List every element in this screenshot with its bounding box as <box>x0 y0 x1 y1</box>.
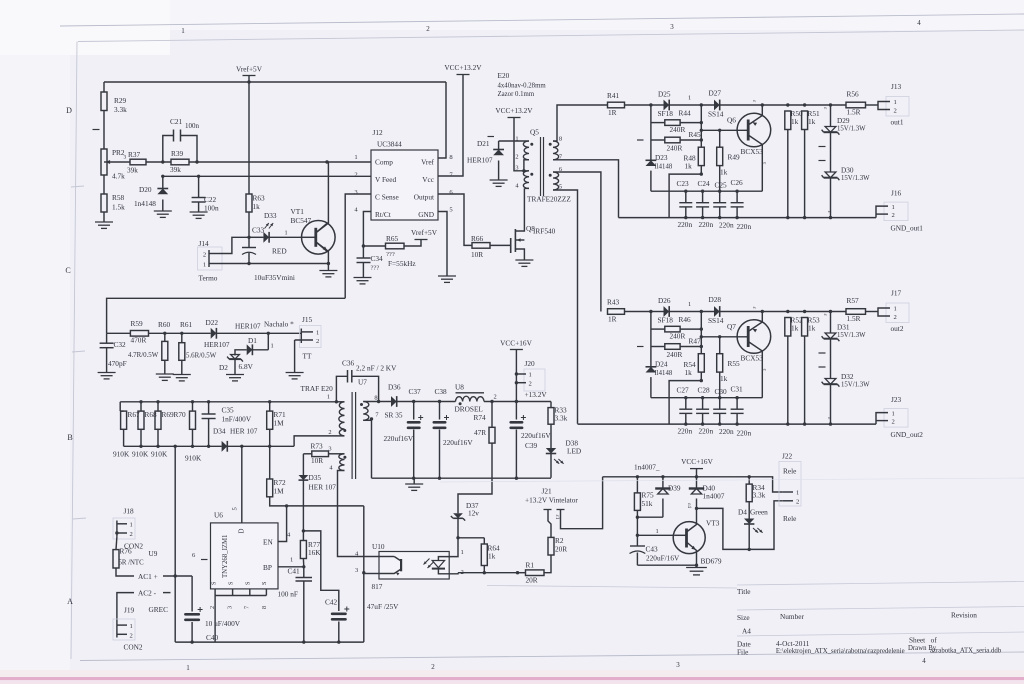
wire +13.2V to R33 <box>516 401 551 403</box>
svg-text:1k: 1k <box>791 324 799 333</box>
capacitor C31 220n <box>731 398 744 424</box>
junction snub left <box>700 310 703 313</box>
svg-text:220n: 220n <box>719 427 734 436</box>
svg-text:12v: 12v <box>468 509 479 518</box>
svg-text:4-Oct-2011: 4-Oct-2011 <box>776 639 810 648</box>
svg-text:R69: R69 <box>162 410 175 419</box>
svg-text:Sheet of: Sheet of <box>909 636 937 645</box>
wire caps top <box>651 397 762 399</box>
resistor R77 16K <box>300 531 321 567</box>
junction cap top node <box>684 190 687 193</box>
junction C37 top <box>412 400 415 403</box>
svg-text:C37: C37 <box>409 387 422 396</box>
wire R77 top to C42 <box>303 531 338 611</box>
resistor R76 NTC <box>113 537 158 576</box>
svg-text:VCC+16V: VCC+16V <box>681 457 713 466</box>
svg-text:1: 1 <box>130 522 133 529</box>
svg-text:A4: A4 <box>742 627 751 636</box>
connector J20 <box>516 359 547 399</box>
svg-text:1R: 1R <box>608 108 617 117</box>
svg-text:GND: GND <box>418 210 434 219</box>
junction R64 bottom <box>483 571 486 574</box>
svg-text:C42: C42 <box>325 598 338 607</box>
svg-text:1M: 1M <box>274 419 285 428</box>
resistor R1 20R <box>518 555 552 585</box>
junction cap top node <box>735 190 738 193</box>
resistor R59 470R <box>107 319 211 345</box>
capacitor C43 220uF/16V <box>630 545 680 566</box>
junction snub b1 <box>700 121 703 124</box>
junction C42 bottom <box>337 640 340 643</box>
junction cap bottom node <box>684 216 687 219</box>
connector J14 <box>198 239 295 283</box>
svg-text:E20: E20 <box>498 71 510 80</box>
transistor Q7 <box>727 312 771 398</box>
node VCC+13.2V at transformer <box>495 106 533 171</box>
connector J19 <box>113 606 143 652</box>
wire sense vertical <box>700 312 702 354</box>
title block lines <box>487 582 1024 637</box>
capacitor C28 220n <box>696 398 709 424</box>
polarity dash near R29 <box>93 129 100 131</box>
junction cap bottom node <box>684 422 687 425</box>
svg-text:2: 2 <box>892 212 895 219</box>
svg-text:5R /NTC: 5R /NTC <box>119 560 145 567</box>
svg-text:out1: out1 <box>891 118 904 127</box>
connector J16 <box>876 189 923 233</box>
junction bank b3 <box>191 445 194 448</box>
svg-text:1n4148: 1n4148 <box>134 199 156 208</box>
svg-text:R61: R61 <box>180 320 193 329</box>
svg-text:J15: J15 <box>302 315 312 324</box>
svg-text:2: 2 <box>209 606 216 609</box>
junction R48 bottom node <box>700 379 703 382</box>
capacitor C42 47uF <box>325 598 399 643</box>
resistor R71 1M <box>267 402 286 447</box>
svg-text:Q6: Q6 <box>727 116 736 125</box>
svg-text:R39: R39 <box>171 149 184 158</box>
junction snub b3 <box>700 138 703 141</box>
svg-text:Size: Size <box>737 613 750 622</box>
svg-text:1: 1 <box>688 301 691 308</box>
resistor R63 <box>246 194 265 238</box>
junction D41 bottom node <box>748 548 751 551</box>
capacitor C24 220n <box>696 191 709 217</box>
svg-text:4x40nav-0.28mm: 4x40nav-0.28mm <box>498 83 547 90</box>
resistor R70 910K <box>174 402 202 463</box>
frame column number 3 bottom <box>676 661 680 669</box>
transformer T2 TRAF E20 U7 <box>301 378 392 480</box>
svg-text:3: 3 <box>227 606 234 609</box>
svg-text:HER107: HER107 <box>235 322 261 331</box>
resistor R43 <box>607 298 651 324</box>
svg-text:1.5R: 1.5R <box>847 314 861 323</box>
resistor R66 <box>471 234 511 259</box>
svg-text:Revision: Revision <box>951 611 977 620</box>
junction C33 bottom node <box>247 262 250 265</box>
capacitor C27 220n <box>679 398 692 424</box>
wire Vref pin8 <box>438 82 446 158</box>
svg-text:C24: C24 <box>698 179 711 188</box>
svg-text:1: 1 <box>529 372 532 379</box>
ground at UC3844 GND <box>438 276 456 282</box>
wire D37 to U10 pin1 <box>457 538 459 553</box>
svg-text:1k: 1k <box>685 162 693 171</box>
svg-text:ε4: ε4 <box>686 503 692 508</box>
svg-text:R1: R1 <box>526 561 535 570</box>
junction cap bottom node <box>701 422 704 425</box>
svg-text:1: 1 <box>327 394 330 401</box>
wire Vref vertical rail <box>248 82 250 194</box>
diode D21 HER107 <box>467 137 508 187</box>
svg-text:5.6R/0.5W: 5.6R/0.5W <box>186 353 217 360</box>
frame column number 2 bottom <box>431 663 435 671</box>
frame row letter C <box>65 266 70 275</box>
svg-text:C: C <box>65 266 70 275</box>
title block text <box>737 587 1002 657</box>
wire bank down to AC1 <box>174 446 176 576</box>
wire U10 pin3 stub2 <box>364 573 379 575</box>
ground under VT1 <box>319 264 337 277</box>
resistor R58 <box>95 175 125 228</box>
wire U10 pin2 stub <box>449 573 458 574</box>
wire U6 D pin <box>241 446 243 523</box>
wire AC2 <box>117 589 171 621</box>
svg-text:C34: C34 <box>371 254 384 263</box>
svg-text:R37: R37 <box>128 150 141 159</box>
svg-text:Vref+5V: Vref+5V <box>411 228 438 237</box>
junction R51 bottom <box>803 422 806 425</box>
junction pin3 node <box>522 169 525 172</box>
wire bank bottom rail <box>124 445 222 447</box>
resistor R54 <box>669 354 704 424</box>
svg-text:220n: 220n <box>737 222 752 231</box>
svg-text:J21: J21 <box>542 487 552 496</box>
svg-text:D30: D30 <box>841 166 854 175</box>
svg-text:16K: 16K <box>308 548 321 557</box>
svg-text:3.3k: 3.3k <box>114 105 127 114</box>
junction R48 bottom node <box>700 172 703 175</box>
faint scan streak <box>440 478 1024 482</box>
svg-text:Q5: Q5 <box>530 128 539 137</box>
svg-text:D33: D33 <box>264 211 277 220</box>
svg-text:HER 107: HER 107 <box>309 483 337 492</box>
svg-text:+13.2V Vintelator: +13.2V Vintelator <box>525 496 578 505</box>
junction base tap <box>636 534 639 537</box>
junction pin3 node <box>362 571 365 574</box>
resistor R56 <box>846 90 878 117</box>
svg-text:TRAFE20ZZZ: TRAFE20ZZZ <box>527 195 571 204</box>
svg-text:F=55kHz: F=55kHz <box>388 259 416 268</box>
junction EN node <box>285 504 288 507</box>
zener D31 <box>822 312 866 342</box>
connector J13 <box>878 82 909 127</box>
resistor R34 3.3k <box>746 477 765 519</box>
svg-text:Green: Green <box>750 508 768 517</box>
svg-text:1: 1 <box>688 95 691 102</box>
mark e4 <box>826 211 832 214</box>
svg-text:C Sense: C Sense <box>375 193 399 202</box>
svg-text:Rele: Rele <box>783 467 796 476</box>
resistor R61 5.6R <box>173 320 217 381</box>
svg-text:C27: C27 <box>677 386 690 395</box>
svg-text:A: A <box>67 597 73 606</box>
svg-text:220n: 220n <box>719 221 734 230</box>
transformer T1 TRAFE20ZZZ <box>515 128 571 204</box>
junction bank b4 <box>207 445 210 448</box>
transistor VT3 BD679 <box>673 508 722 565</box>
junction C38 top <box>438 400 441 403</box>
junction Q emitter node <box>761 310 764 313</box>
svg-text:100 nF: 100 nF <box>278 590 298 599</box>
ground secondary <box>405 478 423 490</box>
svg-text:J12: J12 <box>373 128 383 137</box>
zener D2 6.8V <box>219 355 254 381</box>
resistor R57 <box>846 296 878 323</box>
junction comp collector node <box>325 160 328 163</box>
svg-text:R57: R57 <box>847 296 860 305</box>
wire Vref rail <box>104 81 446 83</box>
svg-text:1k: 1k <box>720 168 728 177</box>
capacitor C37 220uf16V <box>384 387 424 478</box>
label E20 core data <box>498 71 547 98</box>
junction R75 top <box>636 475 639 478</box>
svg-text:D24: D24 <box>655 360 668 369</box>
svg-text:C23: C23 <box>677 179 690 188</box>
svg-text:S: S <box>245 581 252 585</box>
resistor R53 <box>802 316 820 425</box>
junction R51 top <box>803 103 806 106</box>
svg-text:RED: RED <box>272 247 287 256</box>
svg-text:BCX53: BCX53 <box>741 354 764 363</box>
svg-text:J18: J18 <box>124 507 134 516</box>
resistor R2 20R <box>548 530 567 555</box>
svg-text:R59: R59 <box>131 319 144 328</box>
svg-text:D: D <box>66 106 72 115</box>
svg-text:R76: R76 <box>120 547 133 556</box>
svg-text:BP: BP <box>263 563 272 572</box>
zener D37 12v <box>451 501 479 538</box>
junction R49 top node <box>718 129 721 132</box>
junction R50 bottom <box>786 216 789 219</box>
junction bank down node <box>174 445 177 448</box>
dashes between zeners <box>819 147 826 161</box>
svg-text:10 uF/400V: 10 uF/400V <box>205 619 241 628</box>
junction R77 top node <box>302 529 305 532</box>
resistor R49 <box>717 130 740 191</box>
svg-text:R73: R73 <box>311 442 324 451</box>
wire HV rail <box>120 401 336 403</box>
svg-text:2: 2 <box>892 419 895 426</box>
wire transformer pin1 <box>499 140 529 142</box>
svg-text:HER 107: HER 107 <box>230 427 258 436</box>
wire V Feed <box>163 175 371 177</box>
svg-text:R58: R58 <box>112 193 125 202</box>
svg-text:D29: D29 <box>837 116 850 125</box>
svg-text:D35: D35 <box>309 473 322 482</box>
svg-text:1: 1 <box>892 411 895 418</box>
svg-text:???: ??? <box>371 265 380 272</box>
junction D1 tap <box>267 332 270 335</box>
wire pin5 to gnd rail2 <box>553 190 578 424</box>
svg-text:+13.2V: +13.2V <box>525 390 548 399</box>
svg-text:TNY268_IZM1: TNY268_IZM1 <box>222 535 229 578</box>
wire R75 D39 join <box>637 516 663 518</box>
svg-text:910K: 910K <box>113 450 130 459</box>
svg-text:3: 3 <box>676 661 680 669</box>
svg-text:BCX53: BCX53 <box>741 147 764 156</box>
junction D37 bottom node <box>456 536 459 539</box>
svg-text:GND_out2: GND_out2 <box>891 430 924 439</box>
svg-text:Comp: Comp <box>375 158 393 167</box>
svg-text:TRAF E20: TRAF E20 <box>301 384 334 393</box>
svg-text:HER107: HER107 <box>204 340 230 349</box>
wire gnd rail <box>619 217 877 219</box>
svg-text:220uf16V: 220uf16V <box>443 438 473 447</box>
junction cap bottom node <box>701 216 704 219</box>
svg-text:J19: J19 <box>124 606 134 615</box>
diode D40 1n4007 <box>686 477 725 509</box>
resistor R51 <box>802 109 820 218</box>
svg-text:20R: 20R <box>555 545 567 554</box>
polarity dash <box>637 139 644 141</box>
svg-text:1k: 1k <box>808 324 816 333</box>
resistor R68 910K <box>132 402 157 459</box>
frame row letter D <box>66 106 72 115</box>
svg-text:10R: 10R <box>471 250 483 259</box>
svg-text:2: 2 <box>316 338 319 345</box>
junction C35 top <box>207 400 210 403</box>
junction C40 bottom <box>190 640 193 643</box>
inductor U8 DROSEL <box>455 383 517 414</box>
wire J14 pin2 to node <box>220 237 249 253</box>
svg-text:2: 2 <box>431 663 435 671</box>
junction R49 top node <box>718 335 721 338</box>
ground under Q8 <box>515 260 533 266</box>
svg-text:U7: U7 <box>358 378 367 387</box>
frame column number 4 top <box>917 19 921 27</box>
svg-text:SS14: SS14 <box>708 316 724 325</box>
svg-text:10uF35Vmini: 10uF35Vmini <box>254 273 295 282</box>
svg-text:C26: C26 <box>731 178 744 187</box>
svg-text:C25: C25 <box>715 181 728 190</box>
svg-text:E:\elektrojen_ATX_seria\rabotn: E:\elektrojen_ATX_seria\rabotna\razprede… <box>776 648 905 655</box>
svg-text:2: 2 <box>529 381 532 388</box>
svg-text:Il4148: Il4148 <box>655 370 673 377</box>
svg-text:2: 2 <box>203 252 206 259</box>
resistor R69 910K <box>151 402 174 459</box>
svg-text:2: 2 <box>130 531 133 538</box>
svg-text:R66: R66 <box>471 234 484 243</box>
svg-text:EN: EN <box>263 538 273 547</box>
wire GND pin5 <box>438 212 447 277</box>
mark e1 <box>751 100 757 103</box>
svg-text:out2: out2 <box>891 324 904 333</box>
wire C Sense to Nachalo row <box>107 298 346 333</box>
svg-text:R44: R44 <box>679 109 692 118</box>
svg-text:220n: 220n <box>699 220 714 229</box>
junction rect in node <box>649 103 652 106</box>
svg-text:VCC+16V: VCC+16V <box>500 339 532 348</box>
svg-text:220n: 220n <box>737 429 752 438</box>
svg-text:100n: 100n <box>185 122 200 130</box>
svg-text:B: B <box>67 433 72 442</box>
resistor R48 <box>669 147 704 217</box>
zener D30 <box>822 132 870 217</box>
svg-text:J22: J22 <box>782 452 792 461</box>
node VCC+16V at J20 <box>500 339 532 402</box>
frame row letter B <box>67 433 72 442</box>
wire D37 to R64 <box>458 537 484 539</box>
wire collector to D41 bottom <box>697 501 783 550</box>
capacitor C23 220n <box>679 191 692 217</box>
svg-text:1: 1 <box>894 306 897 313</box>
svg-text:1k: 1k <box>808 117 816 126</box>
wire pin3 to rail <box>363 573 365 642</box>
svg-text:4.7R/0.5W: 4.7R/0.5W <box>128 352 159 359</box>
junction cap top node <box>718 396 721 399</box>
svg-text:J23: J23 <box>891 395 901 404</box>
svg-text:1: 1 <box>290 557 293 564</box>
svg-text:1: 1 <box>656 528 659 535</box>
connector J23 <box>876 395 923 439</box>
connector J18 <box>113 507 143 551</box>
svg-text:2: 2 <box>328 429 331 436</box>
svg-text:2: 2 <box>796 499 799 506</box>
capacitor C21 <box>163 117 200 162</box>
transistor Q8 IRF540 <box>511 188 556 260</box>
diode D28 <box>708 295 846 325</box>
svg-text:3: 3 <box>124 155 127 161</box>
svg-text:2: 2 <box>894 108 897 115</box>
label GREC <box>149 605 169 614</box>
svg-text:15V/1.3W: 15V/1.3W <box>841 382 870 389</box>
junction zener bottom <box>829 422 832 425</box>
svg-text:3.3k: 3.3k <box>555 414 568 423</box>
diode D39 <box>655 477 681 517</box>
mark e1 <box>751 307 757 310</box>
svg-text:1.5k: 1.5k <box>112 203 125 212</box>
junction C41 bottom <box>302 640 305 643</box>
svg-text:39k: 39k <box>127 166 138 175</box>
capacitor C26 220n <box>731 191 744 217</box>
svg-text:TT: TT <box>303 352 312 361</box>
junction R75 bottom node <box>636 516 639 519</box>
svg-text:VCC+13.2V: VCC+13.2V <box>495 106 533 115</box>
resistor R47 240R <box>651 337 701 360</box>
resistor R75 51k <box>634 477 654 517</box>
diode D25 <box>651 90 714 119</box>
junction Q emitter node <box>761 103 764 106</box>
svg-text:CON2: CON2 <box>124 643 143 652</box>
capacitor C22 <box>190 176 219 218</box>
svg-text:220uF/16V: 220uF/16V <box>646 554 680 563</box>
diode D1 <box>235 333 274 355</box>
capacitor C30 220n <box>713 398 726 424</box>
junction zener top <box>829 103 832 106</box>
wire pin2 jog <box>294 436 344 446</box>
junction R50 top <box>786 103 789 106</box>
junction C36 right node <box>377 400 380 403</box>
capacitor C38 220uf16V <box>433 387 474 478</box>
svg-text:D39: D39 <box>668 484 681 493</box>
wire Output pin6 <box>438 194 472 245</box>
resistor R33 3.3k <box>548 402 568 449</box>
pin numbers under U6 <box>209 606 268 609</box>
svg-text:Number: Number <box>780 612 804 621</box>
wire to VT3 base <box>637 517 674 545</box>
svg-text:R43: R43 <box>607 298 620 307</box>
